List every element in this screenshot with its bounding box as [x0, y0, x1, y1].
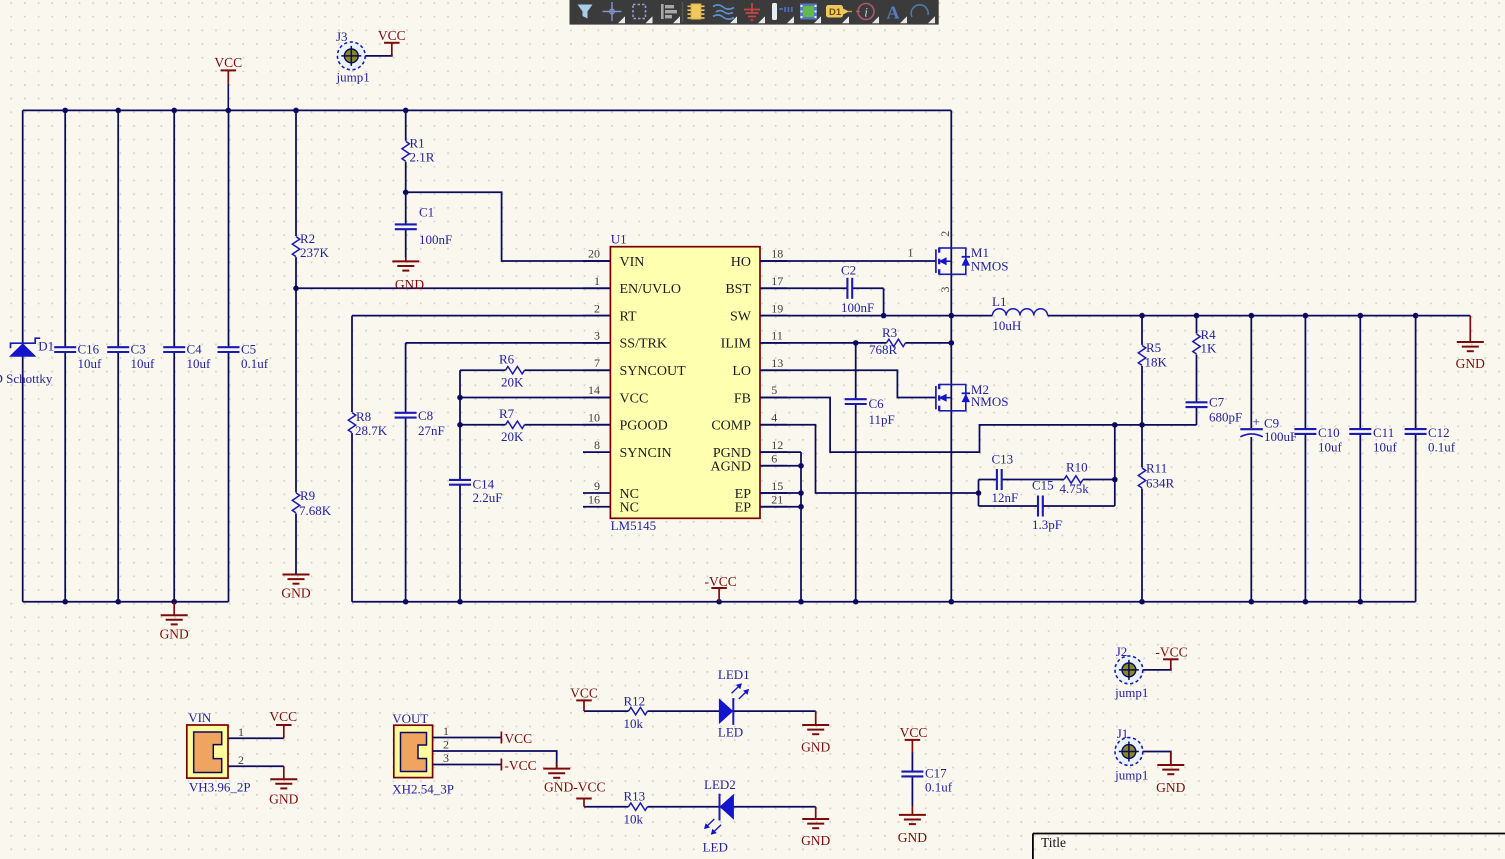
svg-text:C17: C17 [925, 766, 947, 781]
power VCC [378, 28, 406, 56]
capacitor C6 [845, 396, 895, 427]
wire BST C2 [760, 287, 884, 289]
resistor R5 [1137, 340, 1168, 370]
svg-text:GND: GND [898, 830, 927, 845]
svg-text:10uf: 10uf [78, 356, 103, 371]
wire comp box top branch [979, 479, 1115, 481]
svg-text:C1: C1 [419, 205, 434, 220]
ground [898, 806, 927, 845]
wire C17 column [911, 752, 913, 806]
svg-text:2: 2 [594, 301, 600, 315]
svg-text:R1: R1 [410, 136, 425, 151]
svg-text:2.1R: 2.1R [410, 149, 435, 164]
svg-text:GND: GND [801, 739, 830, 754]
svg-text:28.7K: 28.7K [355, 423, 388, 438]
wire VOUT pin2 to GND-VCC [460, 751, 557, 769]
svg-text:3: 3 [938, 287, 952, 293]
capacitor C8 [395, 408, 445, 438]
wire C4 rail [173, 110, 175, 601]
ground [543, 762, 570, 778]
svg-text:R10: R10 [1066, 460, 1088, 475]
wire R5-R11 rail [1141, 316, 1143, 602]
wire C1 branch [405, 192, 407, 257]
svg-text:16: 16 [588, 492, 600, 506]
svg-text:U1: U1 [611, 232, 627, 247]
ground [160, 602, 189, 642]
svg-text:D1: D1 [38, 339, 54, 354]
svg-text:D Schottky: D Schottky [0, 371, 53, 386]
wire bottom-left GND rail [23, 601, 229, 603]
ground [1456, 316, 1485, 371]
wire top VCC rail [23, 109, 952, 111]
capacitor C10 [1294, 425, 1342, 455]
svg-text:VCC: VCC [214, 55, 242, 70]
svg-text:C6: C6 [869, 396, 885, 411]
svg-text:2.2uF: 2.2uF [473, 490, 503, 505]
svg-text:4: 4 [771, 411, 777, 425]
svg-text:NC: NC [620, 501, 639, 516]
wire J3 to VCC [365, 54, 392, 56]
capacitor C16 [54, 342, 102, 372]
svg-text:A: A [887, 3, 900, 23]
wire bottom GND rail [352, 601, 1416, 603]
svg-text:C5: C5 [241, 342, 256, 357]
svg-text:-VCC: -VCC [504, 758, 536, 773]
wire LED2 row [584, 806, 816, 808]
svg-text:R6: R6 [499, 351, 515, 366]
svg-text:11: 11 [771, 329, 783, 343]
svg-text:jump1: jump1 [1114, 685, 1148, 700]
capacitor C14 [449, 477, 502, 506]
wire C9 rail [1250, 316, 1252, 602]
wire SW [760, 315, 951, 317]
svg-text:NMOS: NMOS [971, 394, 1009, 409]
svg-text:i: i [864, 5, 868, 20]
svg-text:12: 12 [771, 438, 783, 452]
capacitor C5 [218, 342, 269, 372]
capacitor C7 [1186, 395, 1243, 425]
resistor R1 [401, 136, 435, 165]
net label -VCC [501, 758, 536, 773]
wire VCC pin14 [460, 397, 610, 399]
svg-text:1K: 1K [1201, 341, 1218, 356]
capacitor C1 [395, 205, 452, 248]
svg-text:C11: C11 [1373, 425, 1394, 440]
wire SW to L1 [951, 315, 992, 317]
svg-text:Title: Title [1041, 835, 1066, 850]
wire R1 branch [405, 110, 407, 192]
svg-text:C13: C13 [992, 452, 1014, 467]
capacitor C2 [841, 263, 874, 316]
wire RT [352, 315, 610, 317]
svg-text:C12: C12 [1428, 425, 1450, 440]
U1 left pins [583, 247, 686, 516]
svg-text:VCC: VCC [570, 685, 598, 700]
svg-text:7.68K: 7.68K [299, 503, 332, 518]
wire EP15 [760, 492, 801, 494]
svg-text:680pF: 680pF [1209, 410, 1242, 425]
capacitor C9 polarized [1240, 414, 1297, 444]
svg-text:2: 2 [938, 231, 952, 237]
wire LO to M2 gate [760, 370, 936, 397]
svg-text:-VCC: -VCC [1155, 645, 1187, 660]
wire FB to divider [760, 398, 1197, 453]
svg-text:GND: GND [1456, 356, 1485, 371]
power VCC [269, 709, 297, 738]
capacitor C11 [1349, 425, 1397, 455]
svg-text:13: 13 [771, 356, 783, 370]
svg-text:R8: R8 [356, 409, 371, 424]
connector VOUT XH2.54_3P [392, 711, 460, 797]
svg-text:C3: C3 [131, 342, 146, 357]
svg-text:SW: SW [730, 309, 752, 324]
power VCC [570, 685, 598, 711]
wire J1 to GND [1143, 752, 1171, 766]
svg-text:GND: GND [160, 627, 189, 642]
svg-text:EP: EP [735, 501, 752, 516]
capacitor C13 [992, 452, 1019, 505]
svg-text:10uf: 10uf [1373, 440, 1398, 455]
svg-text:1: 1 [908, 246, 914, 260]
ground [1156, 752, 1185, 796]
capacitor C15 [1032, 478, 1062, 532]
wire EN/UVLO [296, 287, 610, 289]
svg-text:18: 18 [771, 247, 783, 261]
svg-text:C10: C10 [1318, 425, 1340, 440]
svg-text:EN/UVLO: EN/UVLO [620, 282, 681, 297]
svg-text:2: 2 [443, 738, 449, 752]
wire R8 rail [351, 316, 353, 602]
svg-text:GND: GND [801, 833, 830, 848]
resistor R7 [499, 406, 525, 444]
connector VIN VH3.96_2P [187, 710, 257, 794]
svg-text:VIN: VIN [620, 255, 645, 270]
svg-text:RT: RT [620, 309, 637, 324]
svg-text:18K: 18K [1145, 355, 1168, 370]
svg-text:LED: LED [703, 840, 728, 855]
wire SYNCOUT R6 [460, 369, 610, 371]
svg-text:SYNCIN: SYNCIN [620, 446, 672, 461]
svg-text:8: 8 [594, 438, 600, 452]
svg-text:237K: 237K [300, 245, 330, 260]
U1 right pins [711, 247, 788, 516]
svg-text:R12: R12 [624, 694, 646, 709]
svg-text:19: 19 [771, 301, 783, 315]
svg-text:20: 20 [588, 247, 600, 261]
svg-text:SYNCOUT: SYNCOUT [620, 364, 687, 379]
svg-text:J1: J1 [1117, 726, 1129, 741]
svg-text:LED: LED [718, 725, 743, 740]
wire HO to M1 gate [760, 260, 936, 262]
svg-text:jump1: jump1 [336, 70, 370, 85]
svg-text:FB: FB [734, 391, 751, 406]
ground [801, 807, 830, 848]
svg-text:R9: R9 [300, 488, 315, 503]
wire EP21 [760, 506, 801, 508]
svg-text:C15: C15 [1032, 478, 1054, 493]
svg-text:-VCC: -VCC [705, 574, 737, 589]
resistor R11 [1137, 461, 1175, 491]
wire L1 to output [1048, 315, 1471, 317]
resistor R10 [1060, 460, 1090, 496]
power -VCC [1155, 645, 1187, 670]
jumper J3 [336, 29, 370, 85]
svg-text:3: 3 [594, 329, 600, 343]
wire C14 rail [459, 370, 461, 602]
svg-text:GND: GND [269, 791, 298, 806]
svg-text:C4: C4 [187, 342, 203, 357]
wire J2 to -VCC [1143, 668, 1171, 670]
svg-text:11pF: 11pF [869, 412, 895, 427]
wire LED1 row [584, 710, 816, 712]
svg-text:L1: L1 [992, 294, 1006, 309]
svg-text:10uf: 10uf [187, 356, 212, 371]
svg-text:100nF: 100nF [419, 232, 452, 247]
wire PGOOD R7 [460, 424, 610, 426]
wire VOUT pin3 net -VCC [460, 764, 501, 766]
ground [392, 258, 424, 293]
svg-text:1.3pF: 1.3pF [1032, 517, 1062, 532]
net label VCC [501, 731, 532, 746]
svg-text:VCC: VCC [378, 28, 406, 43]
jumper J2 [1114, 644, 1148, 700]
svg-text:R7: R7 [499, 406, 515, 421]
svg-text:0.1uf: 0.1uf [241, 356, 269, 371]
svg-text:20K: 20K [501, 374, 524, 389]
svg-text:5: 5 [771, 383, 777, 397]
ground [281, 574, 310, 601]
svg-text:14: 14 [588, 383, 600, 397]
svg-text:20K: 20K [501, 429, 524, 444]
wire C12 rail [1415, 316, 1417, 602]
capacitor C3 [107, 342, 155, 372]
svg-text:100nF: 100nF [841, 300, 874, 315]
wire C6 rail [855, 343, 857, 602]
svg-text:R2: R2 [300, 231, 315, 246]
wire C3 rail [117, 110, 119, 601]
svg-text:C7: C7 [1209, 395, 1225, 410]
svg-text:VCC: VCC [900, 725, 928, 740]
svg-text:10uf: 10uf [1318, 440, 1343, 455]
svg-text:GND: GND [281, 586, 310, 601]
wire VIN pin2 to GND [257, 765, 284, 767]
wire PGND [760, 451, 801, 453]
svg-text:R5: R5 [1146, 340, 1161, 355]
svg-text:10: 10 [588, 411, 600, 425]
svg-text:12nF: 12nF [992, 490, 1019, 505]
svg-text:ILIM: ILIM [721, 337, 752, 352]
svg-text:VOUT: VOUT [392, 711, 428, 726]
wire comp box bottom branch [979, 505, 1115, 507]
wire SS/TRK [406, 342, 611, 344]
svg-text:SS/TRK: SS/TRK [620, 337, 667, 352]
svg-text:GND: GND [395, 277, 424, 292]
svg-text:GND: GND [1156, 780, 1185, 795]
capacitor C17 [901, 766, 952, 795]
resistor R13 [624, 789, 648, 827]
wire M2 trunk [950, 316, 952, 602]
svg-text:10k: 10k [624, 812, 644, 827]
wire comp box right [1114, 425, 1116, 506]
wire C10 rail [1304, 316, 1306, 602]
svg-text:LO: LO [732, 364, 751, 379]
resistor R6 [499, 351, 525, 389]
svg-text:R3: R3 [882, 325, 897, 340]
jumper J1 [1114, 726, 1148, 783]
wire C16 rail [64, 110, 66, 601]
resistor R4 [1192, 327, 1218, 356]
svg-text:R13: R13 [624, 789, 646, 804]
svg-text:10k: 10k [624, 716, 644, 731]
svg-text:634R: 634R [1146, 476, 1175, 491]
wire VIN node [406, 192, 611, 261]
svg-text:D1: D1 [829, 7, 842, 18]
wire COMP to network [760, 425, 979, 493]
svg-text:3: 3 [443, 751, 449, 765]
toolbar [570, 0, 939, 25]
svg-text:7: 7 [594, 356, 600, 370]
transistor M2 NMOS [936, 382, 1009, 411]
title block [1033, 834, 1505, 859]
svg-text:10uf: 10uf [131, 356, 156, 371]
svg-text:15: 15 [771, 479, 783, 493]
wire AGND [760, 465, 801, 467]
transistor M1 NMOS [908, 231, 1009, 293]
op-amp U1 LM5145 controller [610, 232, 760, 534]
svg-text:GND-VCC: GND-VCC [544, 780, 606, 795]
svg-text:J2: J2 [1116, 644, 1128, 659]
ground [269, 766, 298, 806]
svg-text:J3: J3 [336, 29, 348, 44]
svg-text:LED2: LED2 [704, 777, 736, 792]
svg-text:+: + [1253, 414, 1260, 429]
wire R4-C7 rail [1196, 316, 1198, 425]
svg-text:COMP: COMP [711, 419, 751, 434]
resistor R2 [291, 231, 330, 260]
capacitor C12 [1405, 425, 1456, 455]
wire ILIM R3 [760, 342, 951, 344]
svg-text:17: 17 [771, 274, 783, 288]
svg-text:4.75k: 4.75k [1060, 481, 1090, 496]
svg-text:VCC: VCC [620, 391, 649, 406]
svg-text:C16: C16 [78, 342, 100, 357]
svg-text:2: 2 [238, 753, 244, 767]
resistor R8 [347, 409, 388, 438]
svg-text:9: 9 [594, 479, 600, 493]
svg-text:XH2.54_3P: XH2.54_3P [392, 782, 454, 797]
svg-text:VCC: VCC [504, 731, 532, 746]
resistor R9 [291, 488, 332, 518]
wire M1 drain trunk [950, 110, 952, 315]
svg-text:LED1: LED1 [718, 667, 750, 682]
svg-text:C2: C2 [841, 263, 856, 278]
wire C8 rail [405, 343, 407, 602]
wire VOUT pin1 net VCC [460, 737, 501, 739]
svg-text:27nF: 27nF [418, 423, 445, 438]
wire C11 rail [1359, 316, 1361, 602]
svg-text:21: 21 [771, 492, 783, 506]
svg-text:VH3.96_2P: VH3.96_2P [189, 780, 251, 795]
svg-text:0.1uf: 0.1uf [925, 780, 953, 795]
wire EP rail [800, 452, 802, 602]
wire left edge rail [22, 110, 24, 601]
svg-text:1: 1 [443, 724, 449, 738]
svg-text:0.1uf: 0.1uf [1428, 440, 1456, 455]
svg-text:1: 1 [594, 274, 600, 288]
svg-text:NMOS: NMOS [971, 259, 1009, 274]
svg-text:jump1: jump1 [1114, 767, 1148, 782]
svg-text:6: 6 [771, 451, 777, 465]
wire comp box left [978, 480, 980, 507]
svg-text:VCC: VCC [269, 709, 297, 724]
diode D1 Schottky [0, 338, 54, 386]
wire R2-R9 rail [295, 110, 297, 574]
svg-text:768R: 768R [869, 342, 898, 357]
svg-text:VIN: VIN [188, 710, 212, 725]
wire C5 rail [228, 110, 230, 601]
capacitor C4 [163, 342, 211, 372]
power -VCC [705, 574, 737, 602]
svg-text:C8: C8 [418, 408, 433, 423]
svg-text:PGOOD: PGOOD [620, 419, 668, 434]
LED LED1 [718, 667, 750, 739]
svg-text:AGND: AGND [711, 460, 751, 475]
resistor R12 [624, 694, 648, 731]
ground [801, 711, 830, 754]
svg-text:BST: BST [725, 282, 751, 297]
LED LED2 [703, 777, 736, 855]
resistor R3 [869, 325, 906, 357]
svg-text:100uF: 100uF [1264, 429, 1297, 444]
svg-text:HO: HO [731, 255, 751, 270]
svg-text:10uH: 10uH [992, 318, 1021, 333]
power VCC [214, 55, 242, 110]
power port [576, 799, 592, 807]
wire VIN pin1 to VCC [257, 737, 284, 739]
svg-text:1: 1 [238, 725, 244, 739]
svg-text:LM5145: LM5145 [611, 518, 657, 533]
svg-text:R11: R11 [1146, 461, 1167, 476]
power VCC [900, 725, 928, 753]
inductor L1 [992, 294, 1048, 333]
